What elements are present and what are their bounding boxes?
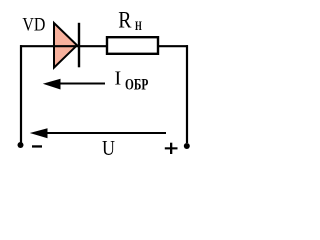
svg-text:Н: Н <box>135 19 142 33</box>
label I obr <box>115 68 149 94</box>
svg-text:R: R <box>118 7 132 32</box>
svg-text:U: U <box>102 136 115 160</box>
svg-text:I: I <box>115 68 122 90</box>
wire <box>159 45 189 47</box>
label minus <box>32 145 42 147</box>
node plus terminal <box>184 143 190 149</box>
arrow I obr <box>43 79 105 90</box>
node minus terminal <box>18 142 24 148</box>
svg-text:VD: VD <box>22 15 45 36</box>
svg-text:ОБР: ОБР <box>125 76 148 93</box>
diode VD <box>54 23 79 68</box>
resistor RH <box>107 37 158 54</box>
wire <box>186 45 188 143</box>
arrow U <box>30 128 166 138</box>
wire <box>20 45 107 47</box>
label RH <box>118 7 142 33</box>
wire <box>20 45 22 142</box>
label plus <box>165 143 178 154</box>
